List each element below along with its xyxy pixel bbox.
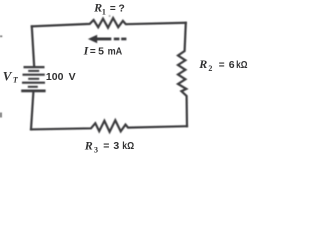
svg-text:R: R xyxy=(198,57,207,71)
svg-text:mA: mA xyxy=(108,45,123,57)
svg-text:=: = xyxy=(110,3,116,14)
svg-text:kΩ: kΩ xyxy=(236,59,247,71)
svg-text:100: 100 xyxy=(46,71,64,83)
svg-text:2: 2 xyxy=(208,64,212,73)
svg-text:6: 6 xyxy=(229,59,235,71)
svg-text:3: 3 xyxy=(94,146,98,155)
svg-text:=: = xyxy=(219,60,225,71)
svg-text:T: T xyxy=(13,76,19,85)
svg-text:I: I xyxy=(83,44,90,58)
svg-text:V: V xyxy=(69,71,76,83)
svg-text:=: = xyxy=(103,140,109,152)
svg-text:?: ? xyxy=(118,2,124,14)
svg-text:V: V xyxy=(3,68,13,83)
svg-text:R: R xyxy=(93,1,102,15)
svg-text:5: 5 xyxy=(98,45,104,57)
svg-text:3: 3 xyxy=(113,140,119,152)
svg-text:=: = xyxy=(90,46,96,57)
svg-text:kΩ: kΩ xyxy=(122,140,134,152)
svg-text:R: R xyxy=(84,138,93,152)
svg-text:1: 1 xyxy=(102,8,106,17)
